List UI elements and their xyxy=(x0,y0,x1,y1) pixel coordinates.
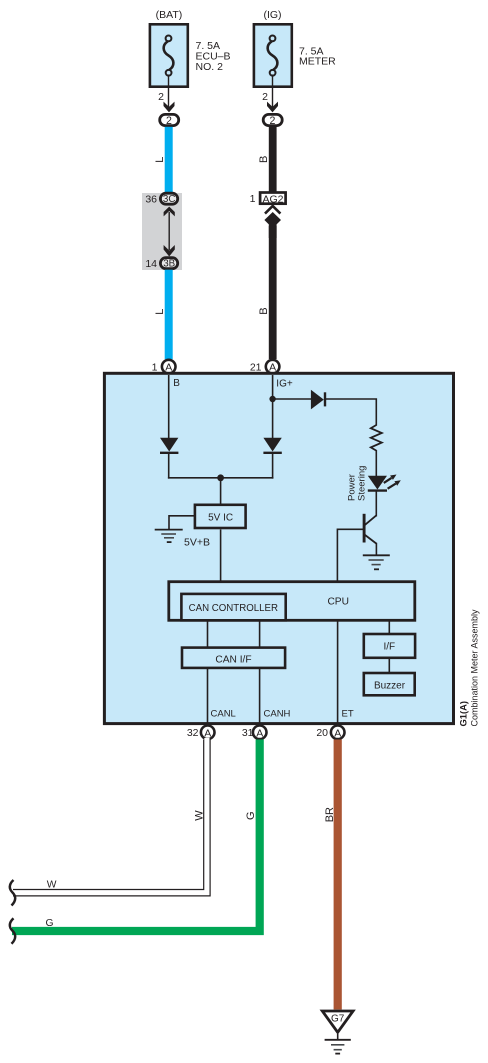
svg-text:G: G xyxy=(46,918,54,929)
wire L blue lower xyxy=(165,270,173,360)
svg-text:CANL: CANL xyxy=(211,709,236,720)
pin 1 connector A xyxy=(162,360,176,374)
wire pin21 down xyxy=(272,375,274,438)
svg-text:G7: G7 xyxy=(331,1014,345,1025)
wire BR brown xyxy=(334,740,342,1010)
diode D2 xyxy=(263,438,281,453)
arrow on wire B xyxy=(264,212,281,238)
wire CANIF to pin31 xyxy=(259,668,261,724)
svg-text:CANH: CANH xyxy=(264,709,291,720)
LED power steering xyxy=(368,475,401,491)
svg-text:21: 21 xyxy=(250,362,262,374)
svg-text:A: A xyxy=(334,727,341,739)
wire emitter to ground xyxy=(375,543,377,556)
svg-text:1: 1 xyxy=(250,193,256,205)
buzzer box xyxy=(364,673,415,695)
pin 20 connector A xyxy=(331,726,345,740)
wire pin1 down xyxy=(168,375,170,438)
svg-text:B: B xyxy=(173,378,180,389)
combination meter assembly box xyxy=(104,373,453,723)
svg-text:2: 2 xyxy=(270,115,276,127)
svg-text:G: G xyxy=(245,811,257,820)
svg-text:5V IC: 5V IC xyxy=(208,513,233,524)
ground 5V+B xyxy=(155,530,183,543)
fuse F2 element xyxy=(268,36,278,76)
wire CPU to IF xyxy=(388,621,390,634)
arrow into connector xyxy=(164,102,175,113)
break symbol W xyxy=(10,880,15,906)
wire LED to transistor xyxy=(375,491,377,517)
svg-text:36: 36 xyxy=(145,193,157,205)
svg-text:B: B xyxy=(258,307,270,314)
ground G7 hatch xyxy=(325,1040,351,1054)
CPU box xyxy=(169,582,415,621)
wire D1 to bus xyxy=(168,453,170,479)
wire 5V IC to CPU xyxy=(220,530,222,582)
svg-text:2: 2 xyxy=(262,91,268,103)
arrow up below 3C xyxy=(164,207,175,217)
I/F box xyxy=(364,634,415,658)
connector 3B xyxy=(160,258,177,270)
wire CANctrl to CANIF right xyxy=(259,620,261,648)
arrow into connector (IG) xyxy=(267,102,278,113)
svg-text:W: W xyxy=(47,880,57,891)
svg-text:G1(A): G1(A) xyxy=(458,701,469,727)
arrow down above 3B xyxy=(164,245,175,257)
ground G7 triangle xyxy=(322,1011,353,1032)
connector 3C xyxy=(160,193,177,205)
wire 5V IC to ground xyxy=(169,516,194,530)
svg-text:5V+B: 5V+B xyxy=(184,537,210,549)
svg-text:I/F: I/F xyxy=(383,641,395,652)
connector AG2 xyxy=(260,193,286,206)
svg-text:14: 14 xyxy=(145,258,157,270)
wire bus to 5V IC xyxy=(220,478,222,504)
svg-text:CAN I/F: CAN I/F xyxy=(215,654,251,665)
connector 2 (BAT) xyxy=(160,114,179,127)
wire IG+ branch right xyxy=(273,398,312,400)
connector 2 (IG) xyxy=(263,114,282,127)
chevron below AG2 xyxy=(265,206,280,214)
fuse F2 body xyxy=(254,24,292,86)
svg-text:A: A xyxy=(256,727,263,739)
wire resistor to LED xyxy=(375,450,377,476)
svg-text:(BAT): (BAT) xyxy=(156,9,183,21)
wire W white xyxy=(8,738,207,893)
svg-text:W: W xyxy=(194,810,206,821)
node junction bus xyxy=(217,474,224,481)
svg-text:3B: 3B xyxy=(163,259,175,270)
resistor R1 xyxy=(371,425,382,451)
wire D2 to bus xyxy=(272,453,274,479)
fuse F1 element xyxy=(164,36,174,76)
wire L blue upper xyxy=(165,127,173,194)
diode D1 xyxy=(160,438,178,453)
diode D3 xyxy=(311,390,325,410)
wire fuse F2 to connector xyxy=(272,75,274,108)
svg-text:ET: ET xyxy=(342,709,354,720)
pin 21 connector A xyxy=(266,360,280,374)
fuse F1 body xyxy=(150,24,188,86)
wire CPU to pin20 xyxy=(337,621,339,724)
wire CANctrl to CANIF left xyxy=(207,620,209,648)
svg-text:3C: 3C xyxy=(163,194,176,205)
svg-text:IG+: IG+ xyxy=(276,379,293,390)
wire inside J/B xyxy=(168,212,170,250)
svg-text:NO. 2: NO. 2 xyxy=(196,61,224,73)
svg-text:Steering: Steering xyxy=(357,466,368,501)
wire fuse F1 to connector xyxy=(168,75,170,108)
svg-text:2: 2 xyxy=(166,115,172,127)
svg-text:32: 32 xyxy=(187,727,199,739)
wire base to CPU xyxy=(337,529,363,581)
svg-text:CAN CONTROLLER: CAN CONTROLLER xyxy=(189,603,278,614)
ground transistor xyxy=(363,555,390,569)
wire B black lower xyxy=(269,226,277,359)
wire G green xyxy=(12,740,260,932)
CAN I/F box xyxy=(182,648,285,668)
wire CANIF to pin32 xyxy=(207,668,209,724)
svg-text:2: 2 xyxy=(158,91,164,103)
wire D3 to resistor xyxy=(325,399,376,426)
wire G7 to ground xyxy=(337,1034,339,1040)
svg-text:20: 20 xyxy=(316,727,328,739)
pin 31 connector A xyxy=(253,726,267,740)
svg-text:CPU: CPU xyxy=(327,597,349,608)
break symbol G xyxy=(10,918,15,944)
svg-text:AG2: AG2 xyxy=(262,193,283,205)
svg-text:1: 1 xyxy=(152,362,158,374)
svg-text:METER: METER xyxy=(299,56,336,68)
svg-text:A: A xyxy=(204,727,211,739)
regulator 5V IC xyxy=(195,505,246,528)
pin 32 connector A xyxy=(201,726,215,740)
svg-text:(IG): (IG) xyxy=(263,9,281,21)
wire bus horizontal xyxy=(168,477,274,479)
wire IF to buzzer xyxy=(388,658,390,673)
svg-text:Buzzer: Buzzer xyxy=(374,681,406,692)
node junction IG+ xyxy=(269,396,275,402)
svg-text:BR: BR xyxy=(324,807,336,822)
junction block J/B gray xyxy=(142,193,182,270)
wire B black upper xyxy=(269,127,277,193)
svg-text:B: B xyxy=(258,156,270,163)
transistor Q1 xyxy=(364,514,376,544)
svg-text:L: L xyxy=(154,157,166,163)
CAN CONTROLLER box xyxy=(181,594,285,620)
svg-text:Combination Meter Assembly: Combination Meter Assembly xyxy=(470,609,480,727)
svg-text:L: L xyxy=(154,309,166,315)
